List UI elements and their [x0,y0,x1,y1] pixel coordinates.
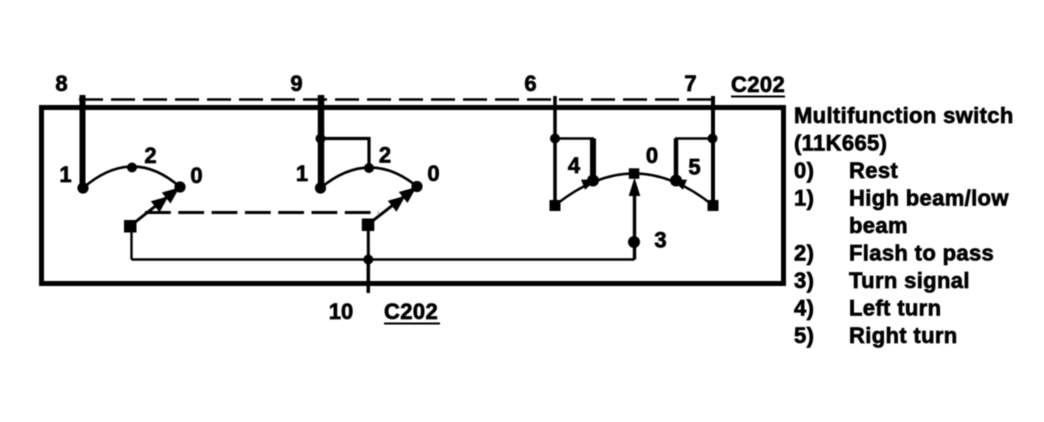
svg-text:0: 0 [427,161,439,186]
svg-text:(11K665): (11K665) [794,131,887,156]
legend title line 2 [794,131,887,156]
switch S3 contact 0 node apex [629,168,640,179]
wire S1 pivot down [130,225,132,260]
switch S3 contact 5 bar [674,139,679,181]
legend item 2 [794,241,994,266]
switch S1 lever arrowhead tip [162,188,180,204]
switch S3 square terminal right [708,200,719,211]
pin 7 label [684,71,696,96]
pin 8 wire [80,95,86,188]
switch S3 contact 4 node [587,175,599,187]
switch S2 junction node on pin 9 [316,134,326,144]
switch S3 label 3 [654,228,666,253]
dashed connector bus line [79,98,716,101]
svg-text:8: 8 [55,71,67,96]
legend item 0 [794,158,898,183]
svg-text:2: 2 [144,143,156,168]
switch S1 lever wire [132,193,173,225]
svg-text:0: 0 [646,143,658,168]
svg-text:Right turn: Right turn [849,323,958,348]
switch S2 arc [321,167,418,188]
svg-text:4: 4 [568,153,581,178]
switch S3 arc [555,174,713,206]
svg-text:1): 1) [794,186,814,211]
switch S1 lever pivot node [124,220,137,233]
switch S2 lever wire [368,193,409,225]
legend item 3 [794,268,970,293]
svg-text:Rest: Rest [849,158,898,183]
switch S1 label 2 [144,143,156,168]
pin 6 label [524,71,536,96]
svg-text:1: 1 [296,161,308,186]
switch S2 lever arrowhead second [388,196,406,212]
svg-text:2): 2) [794,241,814,266]
svg-text:4): 4) [794,296,814,321]
legend item 4 [794,296,941,321]
switch S2 lever arrowhead tip [399,187,417,203]
switch S1 lever arrowhead second [151,196,169,212]
pin 10 wire [367,260,371,294]
connector label C202 top [731,72,785,97]
switch S3 branch wire to contact 5 [675,137,713,140]
switch S3 arc arrowhead left [581,180,596,190]
svg-text:Left turn: Left turn [849,296,941,321]
switch S3 label 4 [568,153,581,178]
svg-text:3): 3) [794,268,814,293]
wire S1 to S2 bottom [132,258,369,260]
wire S2 to S3 bottom [368,258,634,260]
switch body box [42,108,784,284]
svg-text:6: 6 [524,71,536,96]
svg-text:1: 1 [59,162,71,187]
legend item 5 [794,323,958,348]
svg-text:beam: beam [849,213,908,238]
pin 6 wire [553,96,557,206]
svg-text:7: 7 [684,71,696,96]
switch S3 lever wire [633,193,636,260]
svg-text:High beam/low: High beam/low [849,186,1009,211]
svg-text:Multifunction switch: Multifunction switch [794,103,1014,128]
switch S3 lever arrowhead [629,178,641,197]
switch S3 node 3 [628,236,640,248]
svg-text:C202: C202 [384,299,438,324]
svg-text:9: 9 [290,71,302,96]
legend item 1 continuation [849,213,908,238]
svg-text:2: 2 [379,143,391,168]
switch S2 label 1 [296,161,308,186]
switch S3 arc arrowhead right [672,180,687,190]
connector label C202 bottom [384,299,440,324]
switch S3 square terminal left [550,200,561,211]
switch S3 label 5 [688,155,700,180]
switch S2 contact 1 node [315,182,326,193]
legend item 1 [794,186,1009,211]
pin 10 label [329,299,353,324]
switch S3 contact 5 node [670,175,682,187]
svg-text:3: 3 [654,228,666,253]
svg-text:5): 5) [794,323,814,348]
pin 9 label [290,71,302,96]
svg-text:C202: C202 [731,72,785,97]
pin 7 wire [711,96,715,206]
switch S3 label 0 [646,143,658,168]
switch S1 label 1 [59,162,71,187]
switch S3 junction node on pin 7 [708,134,718,144]
switch S1 contact 2 node [127,163,137,173]
svg-text:Flash to pass: Flash to pass [849,241,994,266]
switch S1 arc [83,166,180,188]
switch S3 junction node on pin 6 [550,134,560,144]
svg-text:10: 10 [329,299,353,324]
junction node bottom wire [363,255,373,265]
switch S2 branch wire to contact 2 [321,139,370,169]
svg-text:0: 0 [190,163,202,188]
wire S2 pivot down to pin 10 [367,225,370,260]
switch S2 lever pivot node [362,219,375,232]
legend title line 1 [794,103,1014,128]
switch S1 label 0 [190,163,202,188]
pin 9 wire [318,95,325,188]
switch S1 contact 1 node [77,182,88,193]
svg-text:0): 0) [794,158,814,183]
svg-text:Turn signal: Turn signal [849,268,970,293]
switch S2 contact 2 node [364,163,374,173]
switch S3 branch wire to contact 4 [555,137,594,140]
mechanical link dashed line [145,211,379,214]
switch S2 label 2 [379,143,391,168]
switch S2 label 0 [427,161,439,186]
switch S3 contact 4 bar [590,139,596,181]
svg-text:5: 5 [688,155,700,180]
switch S1 contact 0 node [174,181,185,192]
pin 8 label [55,71,67,96]
switch S2 contact 0 node [411,181,422,192]
